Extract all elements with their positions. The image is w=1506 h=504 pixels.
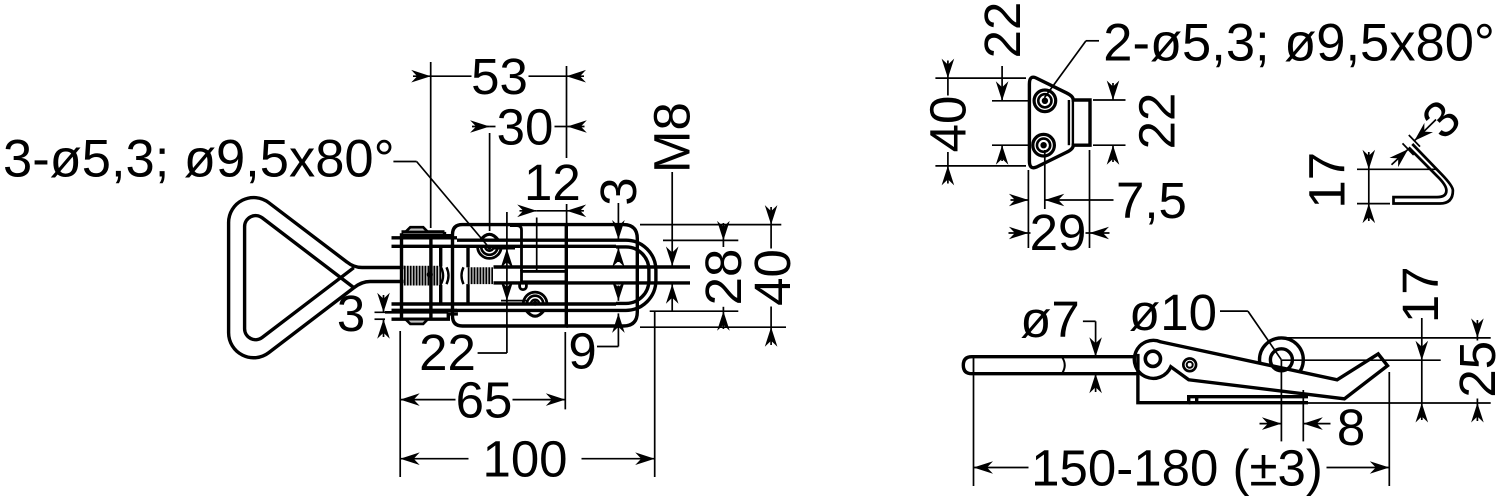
bottom band upper line merged with bow bottom inner <box>392 302 617 305</box>
dim 40 plate line and arrows <box>947 78 949 95</box>
dim 3 hook arrows <box>1414 123 1433 141</box>
svg-text:3: 3 <box>337 285 365 342</box>
dim 65 line and arrows <box>400 393 420 406</box>
dim 22 leader <box>478 352 507 354</box>
bottom flange upper line <box>385 311 448 314</box>
dim 17 side line and arrows <box>1421 318 1423 360</box>
dim 12 line <box>537 210 567 212</box>
dim 22 rivet extension lines <box>494 248 515 250</box>
dim 8 line and arrows <box>1262 417 1282 430</box>
dim 29 line and arrows <box>1009 227 1029 240</box>
dim 22 pitch extensions <box>992 100 1031 102</box>
dia7 arrows <box>1095 340 1097 357</box>
svg-text:22: 22 <box>974 2 1031 59</box>
label 3-dia5,3 leader <box>393 161 416 163</box>
svg-text:29: 29 <box>1030 204 1087 261</box>
hole H2 lower countersunk <box>1033 134 1055 156</box>
bracket bottom edge with step <box>392 314 458 319</box>
cover lever plate rounded rect <box>453 225 567 326</box>
dim 3 bottom-left arrows <box>383 295 385 312</box>
dim 28 extensions <box>663 239 738 241</box>
lever rivet <box>1183 358 1196 371</box>
bracket top tab hump <box>406 227 428 232</box>
dim 40 extensions <box>640 224 781 226</box>
handle triangular grip inner contour <box>245 216 354 340</box>
dim 3 hook ticks <box>1409 135 1420 147</box>
dim 40 line and arrows <box>770 207 772 225</box>
svg-text:3: 3 <box>590 177 647 205</box>
dim 40 plate extensions <box>935 77 1026 79</box>
svg-text:ø10: ø10 <box>1129 284 1217 341</box>
dim 28 line and arrows <box>722 223 724 240</box>
dim 12 arrows <box>517 205 537 218</box>
base plate right rounded end <box>566 225 637 326</box>
dim 22 tab extensions <box>1093 99 1126 101</box>
dim 22 pitch line and arrows <box>1001 66 1003 101</box>
rivet R2 concentric arcs <box>531 300 539 304</box>
bracket top edge with step <box>402 230 445 233</box>
label 2-dia5,3 leader <box>1086 40 1099 42</box>
top band lower line merged with bow top inner <box>392 245 617 248</box>
dim 25 line and arrows <box>1476 320 1478 338</box>
dim 53 line <box>431 75 472 77</box>
dim 53 left extension <box>430 62 432 228</box>
dim 22 rivet pitch arrows <box>501 249 514 269</box>
svg-text:7,5: 7,5 <box>1116 172 1187 229</box>
bottom reference line C <box>1308 402 1491 404</box>
svg-text:M8: M8 <box>644 102 701 173</box>
pivot hole <box>1145 351 1160 366</box>
catch plate bend lines <box>1068 100 1070 145</box>
rod side view capsule <box>963 357 1138 374</box>
svg-text:ø7: ø7 <box>1020 291 1080 348</box>
rod cross pin dot <box>427 272 432 277</box>
roller outer circle <box>1260 338 1304 382</box>
hook strip profile <box>1394 144 1453 204</box>
handle triangular grip outer contour <box>229 198 405 358</box>
roller top extension line A <box>1284 337 1491 339</box>
roller inner circle <box>1270 349 1292 371</box>
bottom flange dim3 tick upper <box>375 311 393 313</box>
dim 17 hook line and arrows <box>1368 152 1370 169</box>
threaded rod section 2 hatch <box>468 267 493 284</box>
bracket slot vertical edge <box>429 238 432 320</box>
dim 100 line and arrows <box>400 452 420 465</box>
svg-text:65: 65 <box>456 371 513 428</box>
dim 150-180 line and arrows <box>974 461 994 474</box>
hole H1 upper countersunk <box>1034 90 1056 112</box>
svg-text:30: 30 <box>497 98 554 155</box>
svg-text:40: 40 <box>920 96 977 153</box>
label M8 leader line <box>671 172 673 266</box>
dim 53/30/12 right extension <box>566 66 568 158</box>
svg-text:12: 12 <box>524 154 581 211</box>
dim 3 top leader and arrows <box>617 203 619 240</box>
lever arm polygon <box>1134 340 1387 398</box>
roller centerline vertical <box>1280 360 1282 442</box>
svg-text:17: 17 <box>1392 266 1449 323</box>
svg-text:3: 3 <box>1411 89 1471 149</box>
dim 17 hook extensions <box>1357 168 1436 170</box>
svg-text:25: 25 <box>1449 341 1506 398</box>
bracket window inner verticals <box>439 246 442 266</box>
svg-text:8: 8 <box>1337 399 1365 456</box>
top plate band upper line <box>392 236 458 239</box>
svg-text:150-180 (±3): 150-180 (±3) <box>1031 440 1323 497</box>
label dia10 leader <box>1220 310 1248 312</box>
svg-text:17: 17 <box>1299 152 1356 209</box>
roller center extension line B <box>1282 359 1441 361</box>
threaded rod section 1 hatch <box>404 266 441 286</box>
catch plate outline <box>1029 77 1090 168</box>
spring hook curl <box>520 282 527 290</box>
spring retainer rect <box>522 271 567 281</box>
dim 30 left extension to rivet <box>489 133 491 231</box>
dim 30 arrows <box>470 120 490 133</box>
adjuster nut concave arcs <box>447 267 449 284</box>
dim 65 extensions <box>399 331 401 477</box>
label M8 arrows <box>666 247 679 267</box>
latch bow outer contour <box>457 240 656 310</box>
rod side view end line <box>973 358 975 374</box>
rivet R1 dome on top band <box>480 234 498 240</box>
bottom band lower line merged with bow outer <box>392 309 458 312</box>
rod through lines M8 <box>494 265 691 268</box>
dim 29 extension right <box>1089 150 1091 248</box>
bracket left edge <box>400 233 403 319</box>
dim 53 arrows <box>411 70 431 83</box>
svg-text:40: 40 <box>744 249 801 306</box>
svg-text:3-ø5,3; ø9,5x80°: 3-ø5,3; ø9,5x80° <box>3 130 395 189</box>
dim 100 extension right <box>654 312 656 477</box>
rod end arc <box>441 267 444 285</box>
svg-text:2-ø5,3; ø9,5x80°: 2-ø5,3; ø9,5x80° <box>1103 14 1495 73</box>
label dia7 leader <box>1083 320 1096 322</box>
svg-text:53: 53 <box>471 48 528 105</box>
latch bow inner right curve <box>616 247 649 304</box>
dim 7,5 extensions <box>1027 170 1029 248</box>
dim 150-180 extensions <box>973 375 975 486</box>
svg-text:22: 22 <box>1129 93 1186 150</box>
svg-text:9: 9 <box>568 323 596 380</box>
body block side view <box>1138 354 1308 403</box>
rod arc detail <box>1062 357 1065 374</box>
dim 8 second extension <box>1302 390 1304 441</box>
dim 7,5 line and arrows <box>1009 194 1029 207</box>
dim 12 left extension <box>536 218 538 272</box>
rivet R2 dome on bottom band <box>526 310 544 316</box>
rivet R1 concentric arcs <box>485 247 493 251</box>
dim 30 line <box>490 126 496 128</box>
spring wire vertical with corner <box>510 226 522 272</box>
dim 22 tab line and arrows <box>1112 83 1114 100</box>
bracket bottom tab hump <box>406 319 428 324</box>
dim 9 arrows on bow bottom <box>617 286 619 301</box>
dim 9 leader <box>597 346 618 348</box>
bottom flange dim3 tick lower <box>375 318 386 320</box>
svg-text:100: 100 <box>482 430 567 487</box>
